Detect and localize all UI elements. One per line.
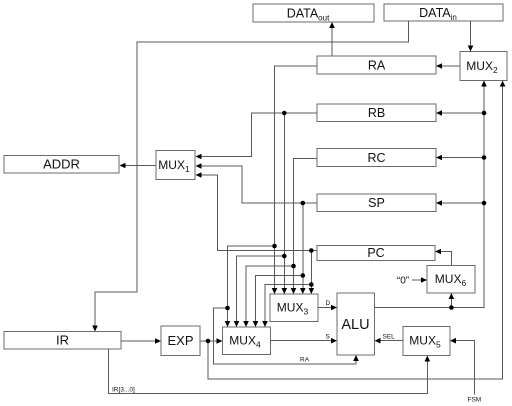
svg-text:RA: RA <box>300 357 310 364</box>
svg-text:ADDR: ADDR <box>43 157 80 172</box>
svg-text:“0”: “0” <box>397 276 409 287</box>
svg-text:RB: RB <box>368 106 385 120</box>
svg-text:S: S <box>326 334 331 341</box>
svg-text:SEL: SEL <box>383 334 396 341</box>
svg-text:ALU: ALU <box>341 317 369 333</box>
svg-text:EXP: EXP <box>167 333 193 348</box>
svg-text:IR: IR <box>56 333 69 348</box>
svg-text:D: D <box>326 300 331 307</box>
svg-text:SP: SP <box>368 196 385 210</box>
svg-text:PC: PC <box>367 246 384 260</box>
svg-text:RC: RC <box>367 151 385 165</box>
svg-text:FSM: FSM <box>468 397 482 404</box>
svg-text:IR[3...0]: IR[3...0] <box>112 387 135 394</box>
svg-text:RA: RA <box>368 59 386 73</box>
